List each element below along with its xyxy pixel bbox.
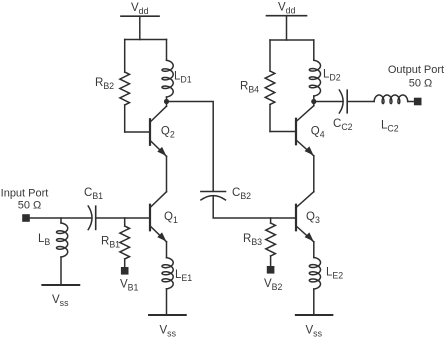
- svg-text:Vss: Vss: [160, 325, 177, 338]
- port: Output Port square terminal: [414, 98, 422, 106]
- node: LD1 / Q2 collector junction: [164, 99, 169, 104]
- svg-text:RB3: RB3: [243, 233, 262, 247]
- svg-text:CB2: CB2: [232, 187, 251, 201]
- resistor RB1: [124, 218, 126, 226]
- inductor LD1: [166, 40, 168, 61]
- svg-text:Vss: Vss: [306, 325, 323, 338]
- svg-text:LE2: LE2: [326, 267, 343, 281]
- wire: stage1 node to CB2: [167, 102, 214, 192]
- inductor LE2: [309, 258, 320, 290]
- svg-text:50 Ω: 50 Ω: [409, 78, 433, 90]
- ground Vss (input): [42, 284, 79, 286]
- wire: LC2 to output port: [408, 101, 414, 103]
- transistor Q2 collector: [166, 102, 168, 107]
- inductor LD2: [313, 40, 315, 60]
- capacitor CB1: [88, 206, 92, 230]
- inductor LC2: [374, 95, 408, 104]
- terminal VB2 square: [267, 266, 275, 274]
- node: LD2 / Q4 collector junction: [311, 99, 316, 104]
- wire: Vdd rail stage 1: [125, 39, 167, 41]
- power supply Vdd (stage 2): [267, 15, 307, 17]
- svg-text:LC2: LC2: [381, 120, 399, 134]
- svg-text:LE1: LE1: [175, 269, 192, 283]
- wire: Q3 emitter to LE2: [313, 242, 315, 258]
- wire: CC2 to LC2: [347, 101, 374, 103]
- transistor Q1 emitter: [151, 227, 167, 242]
- terminal VB1 square: [121, 267, 129, 275]
- svg-text:Q1: Q1: [164, 211, 178, 225]
- inductor LE1: [162, 258, 173, 289]
- svg-text:Q2: Q2: [161, 126, 175, 140]
- resistor RB3: [270, 218, 272, 223]
- transistor Q4 emitter arrow: [305, 146, 314, 155]
- ground Vss (under LE2): [296, 314, 333, 316]
- wire: input port to CB1: [30, 217, 91, 219]
- svg-text:Vdd: Vdd: [131, 2, 149, 16]
- svg-text:LD1: LD1: [174, 71, 192, 85]
- transistor Q2 emitter arrow: [157, 147, 166, 156]
- transistor Q3 base bar: [295, 205, 297, 231]
- svg-text:Input Port: Input Port: [1, 188, 49, 200]
- resistor RB4: [269, 40, 271, 71]
- wire: Q1 emitter to LE1: [166, 242, 168, 258]
- svg-text:Q4: Q4: [311, 126, 325, 140]
- transistor Q3 emitter: [297, 227, 314, 242]
- svg-text:VB2: VB2: [264, 278, 283, 292]
- svg-text:LB: LB: [38, 233, 50, 247]
- wire: RB2 bottom to Q2 base: [125, 131, 150, 133]
- wire: CB2 to stage2 base line: [213, 196, 296, 218]
- svg-text:RB1: RB1: [101, 236, 120, 250]
- transistor Q4 emitter: [297, 141, 314, 156]
- power supply Vdd (stage 1): [121, 15, 159, 17]
- transistor Q1 base bar: [149, 205, 151, 231]
- wire: CB1 to Q1 base: [96, 217, 150, 219]
- transistor Q4 base bar: [295, 119, 297, 145]
- ground Vss (under LE1): [149, 314, 186, 316]
- svg-text:CC2: CC2: [333, 118, 353, 132]
- transistor Q3 emitter arrow: [305, 232, 314, 241]
- transistor Q2 base bar: [149, 119, 151, 145]
- wire: Q4 emitter to Q3 collector: [313, 156, 315, 192]
- transistor Q3 collector: [297, 192, 314, 207]
- svg-text:LD2: LD2: [323, 69, 341, 83]
- svg-text:Output Port: Output Port: [388, 64, 444, 76]
- capacitor CB2: [201, 191, 226, 193]
- svg-text:CB1: CB1: [84, 187, 103, 201]
- transistor Q4 collector: [313, 102, 315, 106]
- transistor Q1 collector: [151, 192, 167, 207]
- svg-text:Vdd: Vdd: [278, 2, 296, 16]
- resistor RB2: [124, 40, 126, 73]
- svg-text:Q3: Q3: [306, 211, 320, 225]
- wire: RB4 bottom to Q4 base: [270, 131, 296, 133]
- svg-text:RB4: RB4: [240, 80, 259, 94]
- wire: stage2 node to CC2: [314, 101, 343, 103]
- capacitor CC2: [339, 90, 343, 113]
- inductor LB: [60, 218, 62, 223]
- transistor Q2 emitter: [151, 141, 167, 156]
- wire: Q2 emitter to Q1 collector: [166, 156, 168, 191]
- svg-text:Vss: Vss: [52, 294, 69, 308]
- port: Input Port square terminal: [22, 214, 30, 222]
- svg-text:RB2: RB2: [95, 77, 114, 91]
- svg-text:50 Ω: 50 Ω: [18, 200, 42, 212]
- transistor Q1 emitter arrow: [157, 232, 166, 241]
- wire: Vdd rail stage 2: [270, 39, 314, 41]
- svg-text:VB1: VB1: [120, 279, 139, 293]
